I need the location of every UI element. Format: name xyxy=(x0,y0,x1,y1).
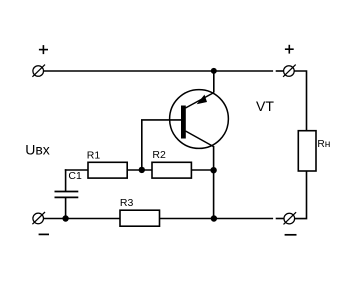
wire Rn bottom to T4 xyxy=(295,171,307,219)
resistor Rn xyxy=(298,131,330,171)
svg-text:R1: R1 xyxy=(87,149,101,161)
resistor R1 xyxy=(87,149,127,178)
svg-text:R3: R3 xyxy=(120,197,134,209)
resistor R2 xyxy=(152,149,191,178)
node base junction xyxy=(139,167,145,173)
terminal T1 top-left xyxy=(32,65,45,77)
node C1-rail junction xyxy=(62,215,68,221)
terminal T4 bottom-right xyxy=(284,212,297,224)
resistor R3 xyxy=(120,197,160,226)
minus terminal label bottom-left xyxy=(39,233,49,235)
svg-text:R2: R2 xyxy=(152,149,166,161)
wire top rail xyxy=(44,70,274,72)
minus terminal label bottom-right xyxy=(285,234,297,236)
svg-text:Rн: Rн xyxy=(317,139,330,150)
plus terminal label top-right xyxy=(285,45,294,54)
wire bottom rail right segment xyxy=(160,218,274,220)
wire bottom rail left segment xyxy=(44,218,121,220)
svg-text:C1: C1 xyxy=(68,170,82,182)
wire C1 top to R1 xyxy=(65,169,88,171)
terminal T2 top-right xyxy=(283,65,296,77)
capacitor C1 xyxy=(55,169,82,218)
wire R2 to collector node xyxy=(191,169,213,171)
wire base junction to transistor base xyxy=(142,120,181,170)
wire R1 to R2 xyxy=(127,169,152,171)
node top junction xyxy=(211,68,217,74)
terminal T3 bottom-left xyxy=(32,212,45,224)
wire T2 to Rn top xyxy=(294,71,306,131)
svg-text:Uвх: Uвх xyxy=(25,142,50,158)
plus terminal label top-left xyxy=(39,45,48,54)
transistor VT xyxy=(170,71,229,148)
node collector-rail junction xyxy=(211,215,217,221)
node collector junction xyxy=(210,167,216,173)
wire collector vertical xyxy=(213,146,215,219)
svg-text:VT: VT xyxy=(256,98,274,114)
